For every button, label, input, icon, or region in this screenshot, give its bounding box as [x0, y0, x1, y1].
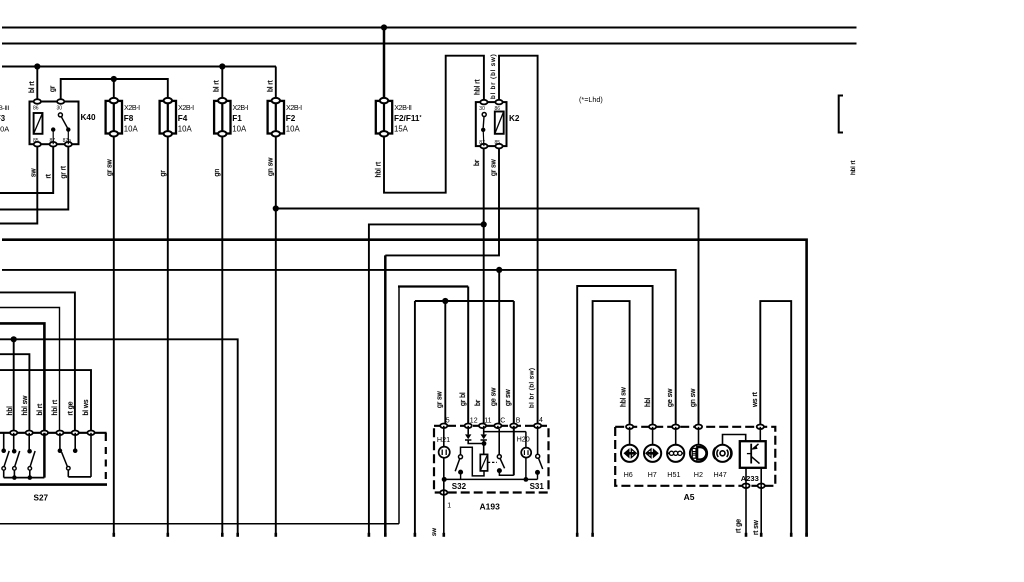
svg-text:X2B-II: X2B-II	[394, 103, 412, 112]
svg-text:H47: H47	[714, 470, 727, 479]
svg-text:hbl: hbl	[645, 397, 652, 407]
svg-text:sw: sw	[431, 528, 438, 536]
svg-text:gr bl: gr bl	[460, 392, 467, 406]
svg-text:H6: H6	[624, 470, 633, 479]
svg-text:10A: 10A	[0, 125, 9, 134]
svg-text:4: 4	[539, 417, 543, 424]
svg-text:5: 5	[446, 417, 450, 424]
svg-text:86: 86	[33, 105, 39, 111]
svg-text:87: 87	[479, 140, 485, 146]
svg-text:S27: S27	[34, 494, 49, 503]
svg-text:gr sw: gr sw	[107, 158, 114, 176]
svg-text:hbl rt: hbl rt	[52, 400, 59, 416]
svg-text:gn sw: gn sw	[690, 388, 697, 407]
svg-text:gn: gn	[214, 169, 221, 177]
svg-text:H21: H21	[437, 435, 450, 444]
svg-text:X2B-I: X2B-I	[286, 103, 302, 112]
svg-text:bl rt: bl rt	[214, 80, 221, 92]
svg-text:K40: K40	[81, 113, 96, 122]
svg-text:85: 85	[495, 140, 501, 146]
svg-text:bl rt: bl rt	[29, 81, 36, 93]
svg-text:87: 87	[50, 138, 56, 144]
svg-text:hbl sw: hbl sw	[22, 395, 29, 416]
svg-text:ws rt: ws rt	[752, 392, 759, 408]
svg-text:gr: gr	[49, 85, 56, 92]
svg-text:H2: H2	[694, 470, 703, 479]
svg-text:A5: A5	[684, 492, 695, 502]
svg-text:ge sw: ge sw	[491, 387, 498, 406]
svg-text:2B-III: 2B-III	[0, 105, 9, 112]
svg-text:gr sw: gr sw	[437, 390, 444, 408]
svg-text:H51: H51	[667, 470, 680, 479]
svg-text:F2/F11*: F2/F11*	[394, 114, 422, 123]
svg-text:F4: F4	[178, 114, 188, 123]
svg-text:30: 30	[479, 106, 485, 112]
svg-text:F8: F8	[124, 114, 134, 123]
svg-text:87a: 87a	[63, 138, 72, 144]
svg-text:br: br	[474, 159, 481, 166]
svg-text:B: B	[516, 417, 521, 424]
svg-text:10A: 10A	[178, 124, 193, 133]
svg-text:12: 12	[470, 417, 478, 424]
svg-text:hbl: hbl	[7, 406, 14, 416]
svg-text:10A: 10A	[124, 124, 139, 133]
svg-text:A233: A233	[741, 474, 759, 483]
svg-text:11: 11	[484, 417, 491, 424]
svg-text:1: 1	[447, 503, 451, 510]
svg-text:A193: A193	[480, 502, 501, 512]
svg-text:gr sw: gr sw	[490, 158, 497, 176]
svg-text:gn sw: gn sw	[267, 157, 274, 176]
svg-text:86: 86	[495, 106, 501, 112]
svg-text:gr sw: gr sw	[505, 388, 512, 406]
svg-text:10A: 10A	[232, 124, 247, 133]
svg-text:bl br (bl sw): bl br (bl sw)	[490, 53, 497, 99]
svg-text:S31: S31	[530, 482, 545, 491]
svg-text:30: 30	[57, 105, 63, 111]
svg-text:(*=Lhd): (*=Lhd)	[579, 95, 603, 104]
svg-text:bl rt: bl rt	[37, 404, 44, 416]
svg-text:H20: H20	[517, 435, 530, 444]
svg-text:bl ws: bl ws	[83, 399, 90, 415]
svg-text:hbl sw: hbl sw	[620, 386, 627, 407]
svg-text:X2B-I: X2B-I	[124, 103, 140, 112]
svg-text:hbl rt: hbl rt	[375, 162, 382, 178]
svg-text:X2B-I: X2B-I	[178, 103, 194, 112]
svg-text:10A: 10A	[286, 124, 301, 133]
svg-text:rt: rt	[45, 174, 52, 178]
svg-text:hbl rt: hbl rt	[850, 160, 857, 175]
svg-text:S32: S32	[452, 482, 467, 491]
svg-text:15A: 15A	[394, 124, 409, 133]
svg-text:ge sw: ge sw	[667, 388, 674, 407]
svg-text:rt ge: rt ge	[735, 519, 742, 533]
svg-text:bl rt: bl rt	[267, 80, 274, 92]
svg-text:H7: H7	[648, 470, 657, 479]
svg-text:F2: F2	[286, 114, 296, 123]
svg-text:X2B-I: X2B-I	[233, 103, 249, 112]
svg-text:gr rt: gr rt	[60, 166, 67, 179]
svg-text:rt sw: rt sw	[753, 519, 760, 535]
svg-text:sw: sw	[30, 168, 37, 178]
svg-text:rt ge: rt ge	[67, 401, 74, 415]
svg-text:K2: K2	[509, 114, 520, 123]
svg-text:F3: F3	[0, 114, 6, 123]
svg-text:bl br (bl sw): bl br (bl sw)	[529, 367, 536, 408]
svg-text:F1: F1	[232, 114, 242, 123]
svg-text:hbl rt: hbl rt	[475, 79, 482, 95]
svg-text:gr: gr	[160, 170, 167, 177]
svg-text:br: br	[475, 399, 482, 406]
svg-text:C: C	[500, 417, 505, 424]
svg-text:85: 85	[33, 138, 39, 144]
